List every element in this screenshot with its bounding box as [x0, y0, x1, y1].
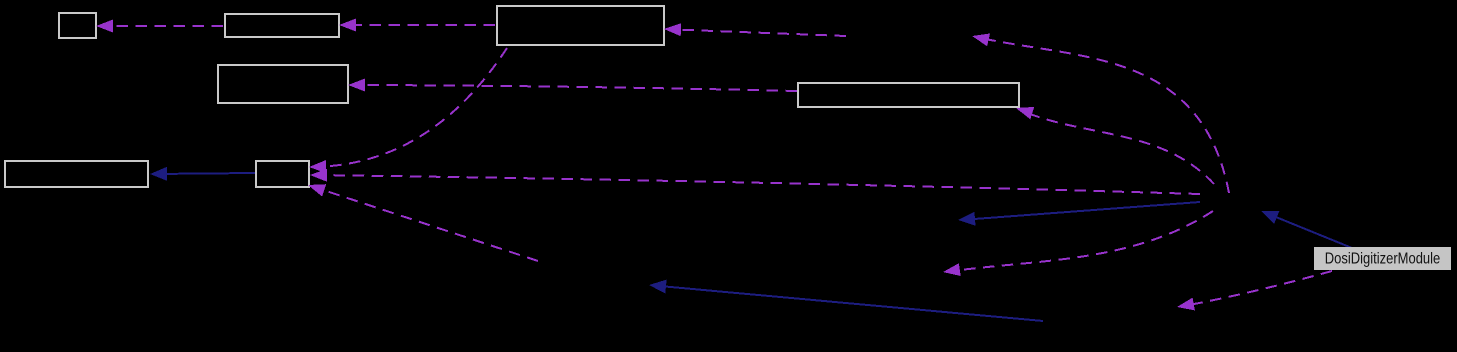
node box1 — [59, 13, 96, 38]
edge hub to box5 corner (dashed) — [1016, 107, 1214, 184]
edge DosiDigitizerModule to hub (solid) — [1261, 211, 1352, 248]
edge bottom long (solid) — [649, 280, 1043, 321]
edge box5 to box4 (dashed) — [348, 79, 797, 92]
node DosiDigitizerModule (highlighted) — [1314, 247, 1451, 270]
node box7 — [256, 161, 309, 187]
node box4 — [218, 65, 348, 103]
edge box3 to box7 curve (dashed) — [309, 48, 507, 173]
edge hub to mid-left (solid) — [958, 202, 1200, 226]
edge lower-left to box7 (dashed) — [308, 184, 538, 261]
svg-text:DosiDigitizerModule: DosiDigitizerModule — [1325, 251, 1441, 268]
edge DosiDigitizerModule to lower-left (dashed) — [1177, 271, 1332, 310]
node box3 — [497, 6, 664, 45]
node box2 — [225, 14, 339, 37]
edge hub to box7 long (dashed) — [310, 169, 1200, 194]
edge hub to lower-left (dashed) — [943, 211, 1213, 276]
edge box2 to box1 (dashed) — [96, 20, 223, 33]
edge to box3 (dashed) — [664, 23, 846, 36]
node box6 — [5, 161, 148, 187]
edge hub to top arc (dashed) — [972, 34, 1229, 194]
edge box3 to box2 (dashed) — [339, 19, 495, 32]
node box5 — [798, 83, 1019, 107]
edge box7 to box6 (solid) — [150, 167, 255, 181]
